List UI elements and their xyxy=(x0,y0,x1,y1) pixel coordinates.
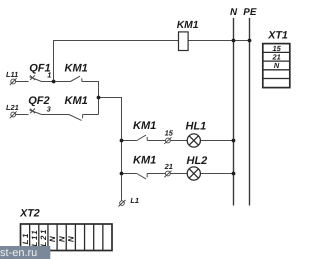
svg-text:L11: L11 xyxy=(30,229,39,247)
svg-text:XT1: XT1 xyxy=(267,30,288,42)
svg-text:N: N xyxy=(67,235,76,242)
svg-text:XT2: XT2 xyxy=(19,208,40,220)
svg-text:21: 21 xyxy=(164,162,173,171)
svg-text:KM1: KM1 xyxy=(177,20,199,31)
svg-text:N: N xyxy=(230,7,238,18)
svg-text:HL1: HL1 xyxy=(186,121,207,133)
svg-text:15: 15 xyxy=(165,128,174,137)
svg-text:L1: L1 xyxy=(130,196,139,205)
svg-text:KM1: KM1 xyxy=(133,120,156,132)
svg-text:1: 1 xyxy=(47,71,51,80)
svg-text:KM1: KM1 xyxy=(133,154,156,166)
svg-text:L21: L21 xyxy=(39,228,48,247)
svg-text:HL2: HL2 xyxy=(187,155,208,167)
svg-text:L21: L21 xyxy=(6,103,19,112)
svg-text:N: N xyxy=(274,61,280,70)
svg-text:21: 21 xyxy=(271,53,280,62)
svg-text:KM1: KM1 xyxy=(65,62,88,74)
svg-text:N: N xyxy=(48,235,57,242)
svg-text:L1: L1 xyxy=(21,232,30,245)
svg-text:N: N xyxy=(57,235,66,242)
svg-text:L11: L11 xyxy=(6,70,18,79)
svg-text:st-en.ru: st-en.ru xyxy=(0,247,37,259)
svg-text:KM1: KM1 xyxy=(65,95,88,107)
svg-text:PE: PE xyxy=(243,7,257,18)
svg-text:15: 15 xyxy=(272,44,281,53)
